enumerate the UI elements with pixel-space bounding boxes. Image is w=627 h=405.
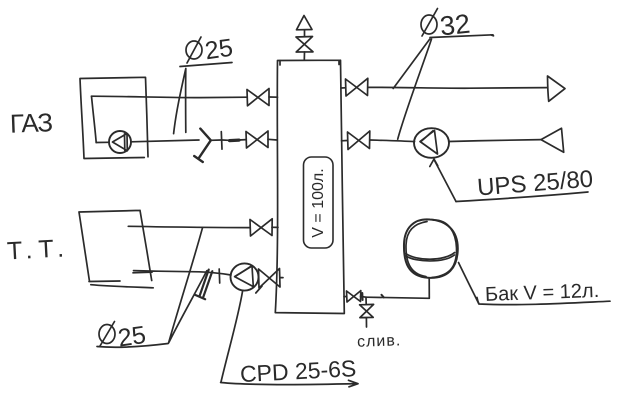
label CPD 25-6S	[221, 355, 358, 387]
leader from CPD label to pump	[221, 292, 243, 383]
buffer tank body	[275, 60, 344, 313]
valve after CPD pump	[256, 269, 280, 294]
leader from Бак label to expansion tank	[459, 263, 479, 304]
pump UPS 25/80	[414, 128, 449, 158]
drain valve (слив, vertical)	[360, 297, 374, 327]
pump P1 in gas boiler	[109, 131, 131, 153]
wire: flow pipe tank to right arrow	[341, 86, 547, 89]
air vent valve (crossed square)	[296, 37, 313, 53]
arrow in (return, pointing left)	[541, 128, 564, 152]
label Ф25 (bottom)	[97, 321, 168, 353]
gas boiler inner loop left edge	[92, 96, 97, 142]
junction tick on drain line	[362, 293, 384, 300]
wire: gas return pipe (boiler to tank, through pump)	[96, 139, 277, 142]
pump CPD (on solid fuel return)	[231, 263, 259, 290]
svg-text:Т.Т.: Т.Т.	[6, 234, 70, 265]
svg-text:25: 25	[203, 34, 234, 66]
solid fuel boiler box	[79, 210, 153, 287]
drain cock on solid fuel return pipe	[195, 270, 213, 300]
bold union dash on gas return pipe	[230, 139, 240, 143]
leader arrow from UPS label to pump	[430, 159, 456, 202]
wire: solid fuel return pipe (bottom)	[133, 271, 283, 278]
label UPS 25/80	[456, 165, 594, 201]
gas boiler outer box	[80, 77, 148, 158]
valve on gas supply pipe	[247, 89, 269, 106]
svg-text:ГАЗ: ГАЗ	[9, 107, 52, 138]
leader lines from Ф25 to solid fuel pipes	[169, 228, 207, 343]
drain cock on gas return pipe	[194, 129, 211, 162]
wire: gas supply pipe (top, boiler to tank)	[92, 96, 278, 97]
wire: return pipe tank to UPS pump	[342, 140, 415, 142]
svg-text:слив.: слив.	[357, 332, 402, 351]
tick fitting on gas return pipe	[220, 132, 223, 150]
valve on flow pipe right	[346, 78, 368, 96]
air vent stem upper	[304, 30, 306, 37]
air vent triangle above buffer tank	[297, 16, 313, 30]
valve on return pipe right	[348, 131, 370, 150]
wire: drain branch from tank	[344, 295, 366, 298]
expansion tank (Бак)	[404, 219, 458, 278]
label Бак V = 12л.	[477, 280, 610, 306]
svg-text:V = 100л.: V = 100л.	[310, 168, 327, 237]
wire: expansion tank drop pipe	[366, 278, 429, 298]
arrow out (flow, pointing right)	[548, 76, 566, 101]
valve on drain branch	[347, 291, 361, 302]
wire: solid fuel supply pipe (top)	[128, 226, 278, 227]
label Ф32	[421, 9, 494, 42]
tick fitting on solid fuel return pipe	[218, 269, 221, 283]
valve on solid fuel supply pipe	[250, 219, 272, 236]
valve on gas return pipe	[246, 131, 268, 148]
air vent stem lower	[303, 52, 305, 60]
leader lines from Ф32 to right pipes	[393, 39, 431, 139]
wire: return pipe UPS pump to left arrow	[449, 140, 541, 142]
leader lines from Ф25 to gas pipes	[174, 69, 186, 134]
label pill V=100л inside tank	[304, 157, 334, 248]
svg-text:CPD 25-6S: CPD 25-6S	[239, 355, 357, 387]
label Ф25 (top)	[180, 34, 235, 67]
